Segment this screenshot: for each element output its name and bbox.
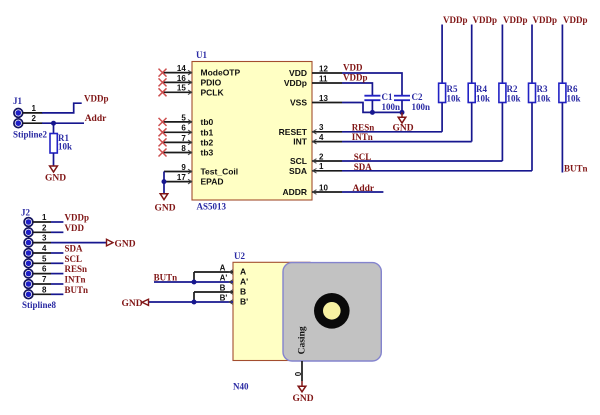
svg-text:A': A' [240, 277, 248, 287]
ground GND (below R1) [45, 166, 66, 184]
svg-text:GND: GND [293, 394, 314, 404]
wire R5 to RESn [441, 103, 443, 132]
svg-text:Stipline8: Stipline8 [22, 300, 57, 310]
wire VDDp (pin11 to C1) [342, 83, 372, 96]
svg-text:INT: INT [293, 137, 308, 147]
U1 left pin 8 tb3 [162, 144, 214, 158]
wire SDA (pin1 to R3) [342, 170, 532, 172]
svg-text:VDDp: VDDp [563, 15, 588, 25]
wire pin B down to GND net [193, 292, 195, 302]
U1 right pin 4 INT [293, 133, 342, 147]
svg-text:SDA: SDA [65, 244, 84, 254]
svg-text:4: 4 [42, 244, 47, 253]
svg-text:GND: GND [45, 174, 66, 184]
svg-text:4: 4 [319, 133, 324, 142]
svg-text:16: 16 [177, 74, 186, 83]
svg-text:SCL: SCL [354, 152, 372, 162]
svg-text:GND: GND [155, 204, 176, 214]
svg-text:8: 8 [42, 285, 47, 294]
ground GND (caps) [393, 112, 414, 133]
wire VDD (pin12 to C2) [342, 73, 402, 96]
wire SCL (pin2 to R2) [342, 160, 502, 162]
U1 right pin 11 VDDp [284, 74, 342, 88]
resistor R3 [529, 83, 551, 103]
svg-text:VDDp: VDDp [503, 15, 528, 25]
svg-text:R5: R5 [447, 84, 458, 94]
resistor R6 [559, 83, 581, 103]
wire VDDp to R3 [531, 25, 533, 84]
wire INTn (pin4 to R4) [342, 141, 472, 143]
J2 wires [51, 222, 106, 294]
wire RESn (pin3 to R5) [342, 131, 442, 133]
svg-text:GND: GND [122, 299, 143, 309]
wire VDDp to R5 [441, 25, 443, 84]
svg-text:Casing: Casing [298, 326, 308, 354]
svg-text:C1: C1 [382, 92, 393, 102]
svg-text:10k: 10k [537, 93, 551, 103]
svg-text:BUTn: BUTn [154, 273, 178, 283]
wire junction to R1 [53, 123, 55, 133]
junction A/A' [192, 280, 197, 285]
svg-text:9: 9 [181, 163, 186, 172]
svg-text:tb1: tb1 [201, 127, 214, 137]
U1 left pin 16 PDIO [162, 74, 222, 88]
svg-text:tb0: tb0 [201, 117, 214, 127]
svg-text:SCL: SCL [65, 254, 83, 264]
svg-text:3: 3 [319, 123, 324, 132]
svg-text:ADDR: ADDR [282, 187, 307, 197]
wire VDDp to R2 [501, 25, 503, 84]
junction J1/R1 [51, 121, 56, 126]
svg-text:INTn: INTn [65, 275, 86, 285]
svg-text:1: 1 [32, 104, 37, 113]
svg-text:0: 0 [294, 371, 303, 376]
ground GND (casing) [293, 381, 314, 404]
svg-text:BUTn: BUTn [65, 285, 89, 295]
svg-text:7: 7 [181, 134, 186, 143]
svg-text:3: 3 [42, 234, 47, 243]
svg-text:J1: J1 [13, 96, 23, 106]
wire R3 to SDA [531, 103, 533, 171]
svg-text:6: 6 [42, 265, 47, 274]
svg-text:VDD: VDD [343, 62, 363, 72]
svg-text:R4: R4 [476, 84, 487, 94]
svg-text:AS5013: AS5013 [197, 202, 227, 212]
U1 right pin 12 VDD [289, 64, 342, 78]
svg-text:10k: 10k [476, 93, 490, 103]
no-connect X pin 5 [159, 118, 167, 126]
U1 left pin 15 PCLK [162, 84, 225, 98]
wire VDDp to R4 [471, 25, 473, 84]
svg-text:1: 1 [42, 213, 47, 222]
svg-text:B: B [220, 284, 226, 293]
U1 left pin 14 ModeOTP [162, 64, 240, 78]
J2 pin stubs [33, 222, 51, 294]
svg-text:13: 13 [319, 94, 328, 103]
svg-text:PCLK: PCLK [201, 87, 225, 97]
svg-text:R6: R6 [567, 84, 578, 94]
wire R4 to INTn [471, 103, 473, 142]
wire R1 to GND [53, 153, 55, 166]
svg-text:J2: J2 [21, 208, 31, 218]
J2 pin numbers 1-8 [42, 213, 47, 294]
svg-text:INTn: INTn [352, 132, 373, 142]
svg-text:RESn: RESn [352, 122, 375, 132]
resistor R2 [499, 83, 521, 103]
svg-text:RESn: RESn [65, 264, 88, 274]
svg-text:BUTn: BUTn [564, 163, 588, 173]
U2 pin B' with GND wire [149, 294, 249, 307]
U1 right pin 3 RESET [279, 123, 342, 137]
connector J1 [13, 96, 48, 140]
casing (U2 joystick) [283, 263, 381, 361]
resistor R5 [439, 83, 461, 103]
wire VSS (pin13 to caps gnd) [342, 103, 402, 113]
svg-text:12: 12 [319, 64, 328, 73]
wire pins 9/17 to GND [162, 172, 167, 194]
svg-text:VDD: VDD [65, 223, 85, 233]
svg-text:tb3: tb3 [201, 148, 214, 158]
U1 right pin 13 VSS [290, 94, 342, 108]
svg-text:Stipline2: Stipline2 [13, 130, 48, 140]
svg-text:A: A [220, 264, 226, 273]
no-connect X pin 16 [159, 78, 167, 86]
capacitor C2 [394, 92, 430, 112]
svg-text:RESET: RESET [279, 127, 308, 137]
svg-text:11: 11 [319, 74, 328, 83]
no-connect X pin 7 [159, 138, 167, 146]
svg-text:7: 7 [42, 275, 47, 284]
op-amp U1 body (AS5013) [192, 50, 312, 212]
U2 pin 0 (casing) [294, 361, 303, 381]
svg-text:17: 17 [177, 173, 186, 182]
svg-text:B': B' [220, 294, 228, 303]
svg-text:B: B [240, 287, 246, 297]
knob ring [314, 293, 350, 329]
no-connect X pin 6 [159, 128, 167, 136]
svg-text:Addr: Addr [85, 114, 107, 124]
svg-text:A': A' [220, 274, 228, 283]
J1 pin 1 [23, 104, 43, 113]
wire R6 to BUTn [561, 103, 563, 173]
svg-text:N40: N40 [233, 382, 249, 392]
svg-text:VDDp: VDDp [65, 213, 90, 223]
no-connect X pin 15 [159, 88, 167, 96]
wire pin A down to BUTn net [193, 272, 195, 282]
svg-text:10k: 10k [447, 93, 461, 103]
U2 pin A [194, 264, 246, 277]
U2 pin A' with BUTn wire [154, 274, 248, 287]
svg-text:R3: R3 [537, 84, 548, 94]
junction B/B' [192, 300, 197, 305]
svg-text:PDIO: PDIO [201, 77, 222, 87]
svg-text:2: 2 [319, 152, 324, 161]
U2 pin B [194, 284, 246, 297]
svg-text:Addr: Addr [353, 184, 375, 194]
svg-text:14: 14 [177, 64, 186, 73]
wire J1 pin1 to VDDp [42, 103, 82, 113]
svg-text:8: 8 [181, 144, 186, 153]
svg-text:C2: C2 [412, 92, 423, 102]
ground GND (U1) [155, 194, 176, 214]
svg-text:Test_Coil: Test_Coil [201, 167, 239, 177]
J1 pin 2 [23, 114, 43, 123]
svg-text:VDDp: VDDp [284, 78, 307, 88]
no-connect X pin 8 [159, 149, 167, 157]
svg-text:6: 6 [181, 124, 186, 133]
svg-text:VDDp: VDDp [533, 15, 558, 25]
svg-text:10: 10 [319, 183, 328, 192]
svg-text:VDDp: VDDp [443, 15, 468, 25]
svg-text:5: 5 [42, 254, 47, 263]
wire J1 pin2 to Addr [42, 122, 84, 124]
U1 left pin 5 tb0 [162, 113, 214, 127]
svg-text:R2: R2 [507, 84, 518, 94]
svg-text:tb2: tb2 [201, 137, 214, 147]
junction C2 bottom [400, 110, 405, 115]
svg-text:10k: 10k [567, 93, 581, 103]
capacitor C1 [364, 92, 400, 112]
svg-text:VDDp: VDDp [84, 94, 109, 104]
hall sensor U2 body (N40) [233, 251, 310, 361]
svg-text:100n: 100n [412, 102, 431, 112]
svg-text:U1: U1 [196, 50, 207, 60]
U1 left pin 9 Test_Coil [164, 163, 238, 177]
svg-text:A: A [240, 267, 246, 277]
svg-text:VDDp: VDDp [473, 15, 498, 25]
U1 left pin 7 tb2 [162, 134, 214, 148]
port GND (J2 pin3) [107, 239, 136, 249]
U1 right pin 2 SCL [290, 152, 342, 166]
svg-text:SCL: SCL [290, 156, 307, 166]
svg-text:GND: GND [115, 239, 136, 249]
svg-text:10k: 10k [58, 142, 72, 152]
resistor R4 [468, 83, 490, 103]
svg-text:10k: 10k [507, 93, 521, 103]
wire Addr (pin10) [342, 191, 383, 193]
svg-text:2: 2 [32, 114, 37, 123]
svg-text:1: 1 [319, 162, 324, 171]
wire R2 to SCL [501, 103, 503, 162]
U1 left pin 17 EPAD [164, 173, 224, 187]
svg-text:SDA: SDA [354, 162, 373, 172]
svg-text:15: 15 [177, 84, 186, 93]
no-connect X pin 14 [159, 69, 167, 77]
svg-text:100n: 100n [382, 102, 401, 112]
U1 right pin 10 ADDR [282, 183, 342, 197]
resistor R1 [50, 133, 72, 153]
connector J2 [21, 208, 57, 311]
svg-text:2: 2 [42, 223, 47, 232]
U1 left pin 6 tb1 [162, 124, 214, 138]
svg-text:5: 5 [181, 113, 186, 122]
svg-text:EPAD: EPAD [201, 177, 224, 187]
svg-text:ModeOTP: ModeOTP [201, 68, 241, 78]
svg-text:VDDp: VDDp [343, 73, 368, 83]
wire VDDp to R6 [561, 25, 563, 84]
svg-text:B': B' [240, 297, 248, 307]
junction C1 bottom [370, 110, 375, 115]
port GND (U2 left) [122, 299, 149, 309]
svg-text:U2: U2 [234, 251, 245, 261]
U1 right pin 1 SDA [289, 162, 342, 176]
svg-text:VSS: VSS [290, 98, 307, 108]
svg-text:SDA: SDA [289, 166, 307, 176]
svg-text:VDD: VDD [289, 68, 307, 78]
